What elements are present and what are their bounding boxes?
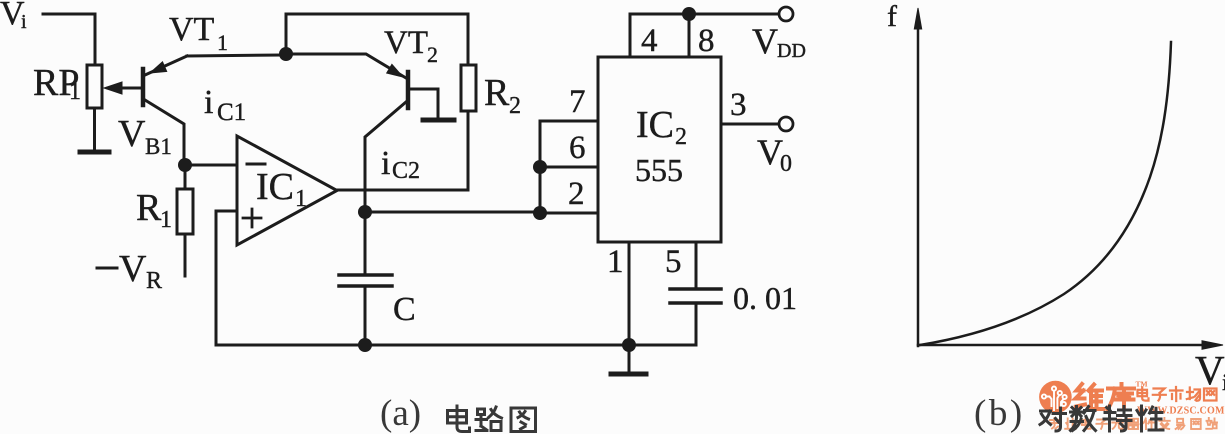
wire VB1 to IC1 inverting input bbox=[185, 164, 237, 167]
label VDD bbox=[752, 21, 806, 62]
label C bbox=[393, 291, 416, 328]
wire RP1 to ground bbox=[93, 108, 96, 150]
transistor VT1 bbox=[143, 56, 187, 165]
svg-text:V: V bbox=[118, 113, 146, 155]
caption (b) logarithmic characteristic bbox=[970, 398, 1170, 434]
svg-text:R: R bbox=[136, 187, 162, 229]
node capacitor top bbox=[358, 205, 372, 219]
svg-text:C: C bbox=[393, 291, 416, 328]
pin 4 wire bbox=[630, 14, 779, 57]
label -VR bbox=[97, 248, 162, 294]
caption (a) circuit-diagram bbox=[378, 398, 553, 434]
resistor R1 with wires bbox=[177, 165, 193, 276]
label pin 2 bbox=[568, 176, 585, 212]
svg-text:0. 01: 0. 01 bbox=[733, 280, 797, 316]
capacitor 0.01 bbox=[670, 289, 721, 345]
hanzi dui bbox=[1040, 408, 1066, 431]
tiny slogan: professional electronic components trading website bbox=[1050, 418, 1217, 429]
hanzi lu (road) bbox=[476, 407, 502, 431]
node pin2 bbox=[533, 206, 547, 220]
svg-text:B1: B1 bbox=[145, 134, 172, 159]
label pin 1 bbox=[607, 244, 624, 280]
node C bottom on rail bbox=[358, 338, 372, 352]
wire node up to top rail and to R2 bbox=[286, 14, 468, 65]
svg-text:R: R bbox=[484, 72, 510, 114]
terminal VDD bbox=[779, 7, 793, 21]
wire R2 bottom to IC1 output bbox=[337, 111, 468, 190]
wire node to 555 input pins bbox=[365, 211, 540, 214]
svg-text:1: 1 bbox=[295, 186, 307, 212]
pin 3 wire bbox=[721, 123, 779, 126]
label pin 6 bbox=[569, 130, 586, 166]
hanzi xing bbox=[1137, 406, 1163, 431]
curve f vs Vi bbox=[920, 42, 1171, 345]
capacitor C bbox=[339, 212, 392, 345]
svg-text:4: 4 bbox=[641, 23, 658, 59]
RP1 wiper arrow bbox=[104, 82, 143, 94]
label f bbox=[887, 0, 897, 33]
svg-text:IC: IC bbox=[256, 166, 294, 208]
label IC1 bbox=[256, 166, 307, 212]
svg-text:i: i bbox=[381, 145, 390, 182]
pin 1 wire bbox=[628, 242, 631, 345]
ground (pin 1) bbox=[611, 345, 646, 374]
hanzi chang (small orange) bbox=[1187, 388, 1200, 401]
label IC2 bbox=[636, 104, 687, 150]
svg-text:7: 7 bbox=[569, 84, 586, 120]
label VB1 bbox=[118, 113, 172, 159]
svg-text:VT: VT bbox=[169, 11, 215, 48]
svg-text:(a): (a) bbox=[380, 398, 421, 434]
hanzi dian (circuit) bbox=[448, 406, 470, 432]
svg-text:i: i bbox=[204, 84, 213, 121]
pin 7 wire bbox=[540, 121, 598, 213]
resistor R2 body bbox=[461, 65, 476, 111]
op-amp IC1 bbox=[237, 136, 337, 245]
hanzi dian (small orange) bbox=[1138, 387, 1149, 400]
svg-text:2: 2 bbox=[427, 42, 438, 67]
label pin 4 bbox=[641, 23, 658, 59]
terminal V0 bbox=[779, 117, 793, 131]
label iC2 bbox=[381, 145, 420, 184]
svg-text:6: 6 bbox=[569, 130, 586, 166]
svg-text:C1: C1 bbox=[217, 99, 246, 126]
wire VT2 base to ground bbox=[408, 89, 438, 118]
potentiometer RP1 body bbox=[87, 65, 102, 108]
svg-text:(b): (b) bbox=[974, 398, 1025, 434]
svg-text:R: R bbox=[146, 268, 162, 294]
label pin 8 bbox=[698, 23, 715, 59]
logo circle icon bbox=[1039, 381, 1072, 414]
node pin6 bbox=[533, 160, 547, 174]
wire Vi to RP1 top bbox=[43, 14, 95, 65]
svg-text:i: i bbox=[21, 11, 27, 33]
label RP1 bbox=[33, 62, 81, 105]
svg-text:VT: VT bbox=[384, 25, 428, 61]
svg-text:0: 0 bbox=[780, 151, 792, 177]
label pin 3 bbox=[730, 87, 747, 123]
svg-text:555: 555 bbox=[635, 152, 683, 188]
svg-text:V: V bbox=[119, 248, 147, 290]
svg-text:1: 1 bbox=[160, 207, 172, 233]
svg-text:DD: DD bbox=[777, 40, 806, 62]
svg-text:C2: C2 bbox=[392, 158, 420, 184]
pin 8 wire bbox=[688, 14, 691, 57]
pin 5 wire bbox=[695, 242, 698, 289]
pin 2 wire bbox=[540, 212, 598, 215]
svg-text:8: 8 bbox=[698, 23, 715, 59]
label R2 bbox=[484, 72, 521, 119]
svg-text:2: 2 bbox=[568, 176, 585, 212]
svg-text:3: 3 bbox=[730, 87, 747, 123]
graph y-axis with arrow bbox=[914, 8, 921, 346]
watermark weiku logo bbox=[1030, 365, 1225, 434]
label iC1 bbox=[204, 84, 246, 126]
svg-text:5: 5 bbox=[665, 244, 682, 280]
label VT2 bbox=[384, 25, 438, 67]
svg-text:1: 1 bbox=[607, 244, 624, 280]
pin 6 wire bbox=[540, 166, 598, 169]
IC2 555 box bbox=[598, 57, 721, 242]
transistor VT2 bbox=[286, 54, 408, 212]
node VB1 bbox=[178, 158, 192, 172]
label 0.01 bbox=[733, 280, 797, 316]
label VT1 bbox=[169, 11, 228, 55]
hanzi wei (orange bold) bbox=[1076, 384, 1104, 409]
node pin1 rail bbox=[622, 338, 636, 352]
hanzi tu (diagram) bbox=[511, 408, 536, 432]
wire VT1 emitter to node bbox=[187, 55, 281, 56]
graph x-axis with arrow bbox=[918, 341, 1223, 350]
svg-text:IC: IC bbox=[636, 104, 674, 146]
wire IC1 noninverting input feedback bbox=[216, 211, 237, 345]
hanzi wang (small orange) bbox=[1204, 389, 1217, 401]
svg-text:f: f bbox=[887, 0, 897, 33]
label Vi bbox=[0, 0, 27, 33]
svg-text:2: 2 bbox=[509, 93, 521, 119]
svg-text:2: 2 bbox=[675, 124, 687, 150]
hanzi shu bbox=[1071, 407, 1096, 431]
node pin8 top bbox=[682, 7, 696, 21]
label pin 7 bbox=[569, 84, 586, 120]
label 555 bbox=[635, 152, 683, 188]
svg-text:1: 1 bbox=[69, 79, 81, 105]
label pin 5 bbox=[665, 244, 682, 280]
svg-text:V: V bbox=[752, 21, 778, 61]
hanzi te bbox=[1104, 406, 1131, 431]
label R1 bbox=[136, 187, 172, 233]
label Vi (graph) bbox=[1195, 347, 1225, 395]
svg-text:1: 1 bbox=[217, 30, 228, 55]
node junction emitters bbox=[279, 47, 293, 61]
hanzi ku (orange bold) bbox=[1108, 384, 1135, 410]
hanzi zi (small orange) bbox=[1153, 389, 1166, 401]
ground (below RP1) bbox=[80, 150, 109, 155]
label V0 bbox=[757, 132, 792, 177]
hanzi shi (small orange) bbox=[1170, 387, 1183, 401]
bottom rail wire bbox=[216, 344, 696, 347]
ground (below VT2 base) bbox=[423, 118, 454, 123]
